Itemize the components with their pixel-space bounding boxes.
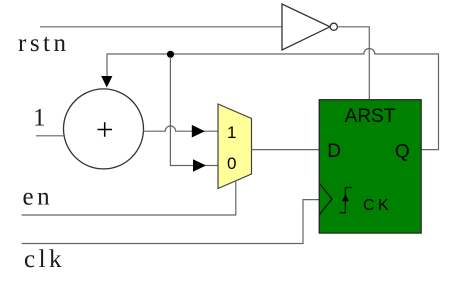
wire rstn to inverter input xyxy=(40,26,282,28)
svg-text:CK: CK xyxy=(363,197,392,214)
svg-text:en: en xyxy=(23,184,54,211)
svg-text:clk: clk xyxy=(24,246,65,273)
wire mux output to D pin xyxy=(252,149,320,151)
svg-text:0: 0 xyxy=(227,154,236,173)
mux U3 xyxy=(218,104,252,189)
wire const 1 into adder xyxy=(36,135,64,137)
svg-text:1: 1 xyxy=(227,123,236,142)
arrowhead into adder top xyxy=(101,76,112,88)
rising edge arrowhead xyxy=(342,194,349,201)
flip-flop U4 xyxy=(319,100,421,233)
junction dot xyxy=(167,51,174,58)
wire adder output with hop xyxy=(143,126,218,131)
wire inverter output to ARST pin xyxy=(338,27,370,99)
svg-text:Q: Q xyxy=(395,142,410,163)
wire Q branch to mux input 0 xyxy=(170,57,218,166)
clock chevron on flip-flop edge xyxy=(320,184,333,215)
arrowhead into mux input 1 xyxy=(192,125,205,138)
wire clk to CK pin xyxy=(22,200,320,244)
wire mux select to en xyxy=(22,181,236,215)
arrowhead into mux input 0 xyxy=(193,159,206,172)
inverter U1 xyxy=(282,4,330,50)
svg-text:D: D xyxy=(327,141,341,162)
svg-text:1: 1 xyxy=(33,105,49,132)
rising edge symbol xyxy=(340,188,353,213)
adder U2 xyxy=(64,89,144,169)
svg-text:rstn: rstn xyxy=(18,30,70,57)
inverter output bubble xyxy=(330,23,337,30)
svg-text:ARST: ARST xyxy=(345,106,396,127)
plus sign xyxy=(98,122,113,137)
wire Q feedback (Q right, up, left with hop, down into adder) xyxy=(107,49,439,150)
